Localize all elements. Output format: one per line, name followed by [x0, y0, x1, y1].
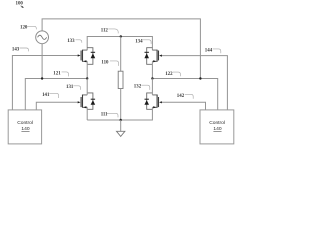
wire node 121 line from left control box	[25, 79, 87, 110]
label 143	[12, 48, 29, 53]
svg-text:Control: Control	[17, 120, 33, 126]
node dot 112-resistor	[120, 35, 122, 37]
body diode loop	[87, 48, 93, 65]
label 132	[134, 85, 150, 90]
node dot 111-ground	[120, 119, 122, 121]
svg-text:140: 140	[21, 126, 29, 132]
source arrow	[83, 60, 86, 62]
svg-text:112: 112	[101, 28, 109, 33]
transistor Q133	[81, 48, 95, 65]
wire Q132 source vertical + node 111 line	[87, 107, 152, 120]
label 134	[135, 40, 151, 45]
AC source 120	[36, 31, 49, 44]
leads channel to axis	[83, 50, 88, 61]
wire Q134 source vertical down to node 122	[151, 61, 153, 78]
channel bar	[82, 50, 84, 62]
arrowhead gate 144	[159, 55, 162, 57]
node dot 122-FET column	[151, 77, 153, 79]
transistor Q132 (mirrored)	[144, 93, 158, 109]
node dot 122-rail drop	[199, 77, 201, 79]
svg-text:141: 141	[42, 93, 50, 98]
wire gate line 144 to right control box	[162, 56, 228, 110]
label 122	[165, 72, 180, 77]
resistor 110 (load)	[118, 37, 123, 121]
wire Q131 source vertical	[86, 107, 88, 120]
label 141	[42, 93, 59, 98]
control box left U140	[8, 110, 41, 144]
label 144	[205, 49, 221, 54]
arrowhead gate 141	[78, 101, 81, 103]
transistor Q131	[81, 93, 95, 109]
label 142	[177, 94, 193, 99]
wire Q133 source vertical down to node 121	[86, 61, 88, 78]
svg-text:132: 132	[134, 85, 142, 90]
gate bar	[80, 51, 82, 61]
wire node 122 line to right control box	[152, 79, 217, 110]
diode triangle	[91, 53, 96, 58]
arrowhead gate 143	[78, 54, 81, 56]
label 111	[101, 113, 118, 118]
node dot AC-121	[41, 77, 43, 79]
wire Q132 drain vertical	[151, 79, 153, 95]
label 110	[101, 61, 118, 66]
svg-text:134: 134	[135, 40, 143, 45]
wire top rail from AC source up and across to right drop	[42, 19, 200, 79]
wire AC bottom lead	[41, 44, 43, 79]
label 121	[53, 72, 68, 77]
svg-text:144: 144	[205, 49, 213, 54]
svg-text:133: 133	[67, 39, 75, 44]
svg-text:142: 142	[177, 94, 185, 99]
svg-text:110: 110	[101, 61, 109, 66]
svg-text:143: 143	[12, 48, 20, 53]
wire Q131 drain vertical	[86, 79, 88, 95]
node dot 121-FET column	[86, 77, 88, 79]
control box right U140	[200, 110, 234, 144]
label 120	[20, 26, 36, 31]
wire gate line 141 from left control box	[36, 102, 78, 110]
svg-text:122: 122	[165, 72, 173, 77]
figure number 100	[16, 1, 24, 8]
label 131	[66, 85, 81, 90]
wire node 112 rail with drops to Q133 and Q134	[87, 37, 152, 51]
svg-text:100: 100	[16, 1, 24, 6]
label 133	[67, 39, 82, 44]
svg-text:131: 131	[66, 85, 74, 90]
label 112	[101, 28, 118, 33]
diode cathode bar	[91, 51, 95, 53]
arrowhead gate 142	[159, 101, 162, 103]
svg-text:140: 140	[213, 126, 221, 132]
svg-text:121: 121	[53, 72, 61, 77]
ground	[117, 120, 125, 136]
svg-text:Control: Control	[209, 120, 225, 126]
wire gate line 142 to right control box	[162, 102, 206, 110]
svg-text:120: 120	[20, 26, 28, 31]
wire gate line 143 from left control box	[12, 56, 78, 110]
transistor Q134 (mirrored)	[144, 48, 158, 65]
